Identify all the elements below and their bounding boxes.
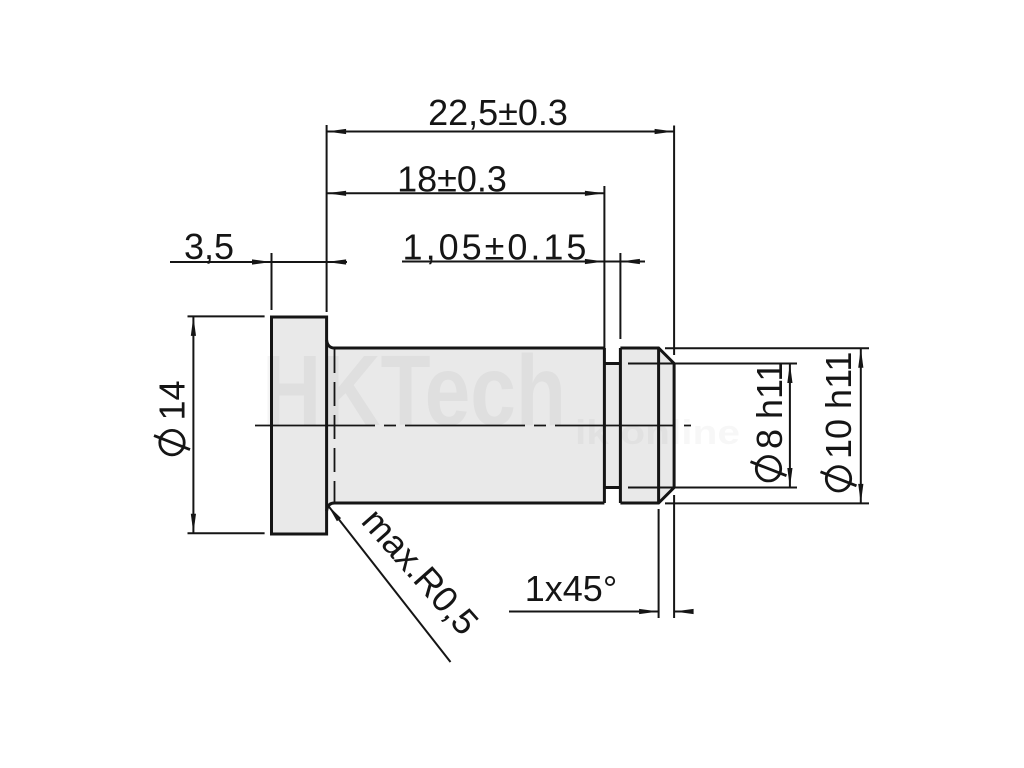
dim text dia 10 h11 rotated: [818, 352, 859, 491]
fillet tangent dashed line: [334, 349, 336, 502]
arrowheads: [191, 129, 864, 614]
arrow 22,5 right: [655, 129, 675, 134]
svg-text:HKTech: HKTech: [262, 335, 566, 447]
thin dimension linework: [170, 125, 869, 662]
arrow 18 right: [585, 191, 605, 196]
Ø10 dimension line: [860, 348, 862, 503]
svg-text:14: 14: [152, 380, 193, 420]
arrow 22,5 left: [327, 129, 347, 134]
dimension line 3,5: [170, 261, 347, 263]
Ø8 dimension line: [789, 364, 791, 488]
centerline: [255, 425, 691, 427]
flange outline: [272, 317, 327, 534]
arrow dia10 top: [858, 348, 863, 368]
dim text dia 8 h11 rotated: [749, 362, 790, 481]
leader line max.R0,5: [328, 506, 451, 663]
Ø14 extension lines: [188, 315, 265, 317]
Ø14 dimension line: [192, 316, 194, 533]
arrow 3,5 left (outside): [252, 259, 272, 264]
arrow dia14 bottom: [191, 514, 196, 534]
dimension line 18: [327, 192, 605, 194]
svg-text:1,05±0.15: 1,05±0.15: [403, 227, 590, 268]
extension line flange left face x=271.5 (3,5): [271, 253, 273, 310]
svg-text:8 h11: 8 h11: [749, 362, 790, 449]
arrow 1,05 left (outside): [585, 259, 605, 264]
arrow 3,5 right (outside): [327, 259, 347, 264]
extension line flange right face (shared 22,5 / 18 / 3,5): [326, 125, 328, 312]
Ø10 extension lines: [665, 347, 869, 349]
Ø8 extension lines: [628, 363, 797, 365]
arrow dia10 bottom: [858, 484, 863, 504]
arrow dia14 top: [191, 316, 196, 336]
end piece face fill: [620, 348, 674, 503]
end piece outline with 1x45 chamfer: [620, 348, 674, 503]
svg-text:22,5±0.3: 22,5±0.3: [428, 92, 568, 133]
svg-text:10 h11: 10 h11: [818, 352, 859, 459]
dimension line 1,05: [402, 261, 645, 263]
arrow 1,05 right (outside): [620, 259, 640, 264]
groove face fill: [604, 364, 620, 488]
svg-text:3,5: 3,5: [184, 226, 234, 267]
body face fill: [327, 348, 605, 503]
dimension line 1x45: [509, 611, 659, 613]
part outlines: [272, 317, 675, 534]
body outline with fillets at flange junction: [327, 340, 605, 511]
extension line end face x=674 (shared 22,5 / 1x45): [673, 126, 675, 356]
arrow 1x45 right (outside): [674, 609, 694, 614]
arrow 1x45 left (outside): [639, 609, 659, 614]
chamfer edge silhouette line: [657, 348, 660, 503]
groove outline: [604, 364, 620, 488]
extension line groove right x=620 (1,05): [619, 253, 621, 339]
svg-text:18±0.3: 18±0.3: [397, 159, 507, 200]
flange face fill: [272, 317, 327, 534]
arrow leader max.R0,5: [328, 506, 341, 522]
dimension line 22,5: [327, 131, 674, 133]
1x45 extension lines: [658, 509, 660, 618]
note text max.R0,5 rotated 45: [354, 500, 487, 643]
svg-text:1x45°: 1x45°: [525, 568, 617, 609]
dim text dia 14 rotated: [152, 380, 193, 454]
part fills: [272, 317, 675, 534]
arrow dia8 top: [787, 364, 792, 384]
arrow 18 left: [327, 191, 347, 196]
extension line body right face x=604 (18 / 1,05): [603, 186, 605, 351]
arrow dia8 bottom: [787, 468, 792, 488]
